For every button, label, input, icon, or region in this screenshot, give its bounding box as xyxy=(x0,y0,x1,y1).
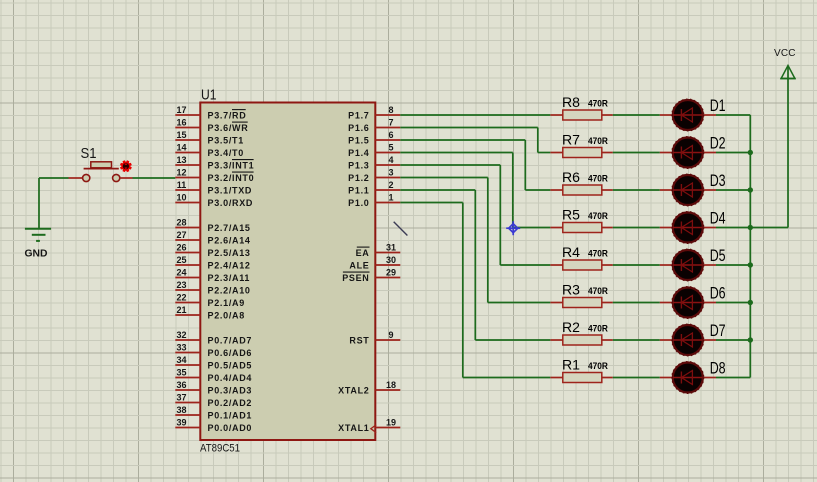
resistor R7 470R xyxy=(550,132,613,158)
pin 1 P1.0 stub xyxy=(375,202,400,204)
pin 37 P0.2/AD2 stub xyxy=(175,402,200,404)
wire D8 to cathode rail xyxy=(716,377,750,379)
svg-text:29: 29 xyxy=(386,267,396,277)
svg-text:2: 2 xyxy=(388,180,393,190)
svg-text:P1.1: P1.1 xyxy=(348,185,369,195)
svg-text:P2.6/A14: P2.6/A14 xyxy=(208,235,251,245)
pin 31 EA stub xyxy=(375,252,400,254)
svg-text:P0.1/AD1: P0.1/AD1 xyxy=(208,410,253,420)
svg-text:35: 35 xyxy=(176,367,186,377)
junction dot rail y=265.0 xyxy=(748,262,753,267)
pin 39 P0.0/AD0 stub xyxy=(175,427,200,429)
svg-text:21: 21 xyxy=(176,305,186,315)
svg-text:17: 17 xyxy=(176,105,186,115)
pin 14 P3.4/T0 stub xyxy=(175,152,200,154)
pin 11 P3.1/TXD stub xyxy=(175,189,200,191)
wire P1.7 to R8 xyxy=(400,114,550,116)
pin 13 P3.3/INT1 stub xyxy=(175,164,200,166)
svg-text:D1: D1 xyxy=(710,96,726,115)
svg-text:31: 31 xyxy=(386,242,396,252)
wire R2 to D7 xyxy=(613,339,660,341)
wire D1 to cathode rail xyxy=(716,114,750,116)
S1 left terminal xyxy=(83,174,90,181)
svg-text:P3.1/TXD: P3.1/TXD xyxy=(208,185,253,195)
svg-text:13: 13 xyxy=(176,155,186,165)
svg-text:AT89C51: AT89C51 xyxy=(200,443,240,455)
svg-text:25: 25 xyxy=(176,255,186,265)
svg-text:36: 36 xyxy=(176,380,186,390)
pin 15 P3.5/T1 stub xyxy=(175,139,200,141)
svg-text:6: 6 xyxy=(388,130,393,140)
svg-text:P3.4/T0: P3.4/T0 xyxy=(208,148,244,158)
svg-text:P1.5: P1.5 xyxy=(348,135,369,145)
wire R7 to D2 xyxy=(613,152,660,154)
svg-text:38: 38 xyxy=(176,405,186,415)
junction dot rail y=190.0 xyxy=(748,187,753,192)
svg-text:D7: D7 xyxy=(710,321,726,340)
svg-text:P0.4/AD4: P0.4/AD4 xyxy=(208,373,253,383)
svg-text:39: 39 xyxy=(176,417,186,427)
pin 9 RST stub xyxy=(375,339,400,341)
svg-text:P2.3/A11: P2.3/A11 xyxy=(208,273,251,283)
svg-text:470R: 470R xyxy=(588,248,608,258)
svg-text:R2: R2 xyxy=(562,319,580,335)
svg-text:4: 4 xyxy=(388,155,393,165)
svg-text:P1.6: P1.6 xyxy=(348,123,369,133)
power symbol VCC xyxy=(781,66,795,79)
svg-text:EA: EA xyxy=(356,248,370,258)
wire P1.2 to R3 xyxy=(400,177,488,179)
svg-text:P0.5/AD5: P0.5/AD5 xyxy=(208,360,253,370)
LED D6 xyxy=(660,284,726,319)
pin 7 P1.6 stub xyxy=(375,127,400,129)
svg-text:16: 16 xyxy=(176,117,186,127)
wire ground riser xyxy=(38,178,40,229)
svg-text:18: 18 xyxy=(386,380,396,390)
wire P1.6 to R7 xyxy=(400,127,538,129)
svg-text:470R: 470R xyxy=(588,136,608,146)
svg-text:P0.6/AD6: P0.6/AD6 xyxy=(208,348,253,358)
svg-text:D6: D6 xyxy=(710,284,726,303)
svg-text:P1.2: P1.2 xyxy=(348,173,369,183)
svg-text:10: 10 xyxy=(176,192,186,202)
svg-text:P3.3/INT1: P3.3/INT1 xyxy=(208,160,255,170)
wire R8 to D1 xyxy=(613,114,660,116)
blue origin cursor xyxy=(506,221,520,235)
wire D4 to cathode rail xyxy=(716,227,750,229)
wire rail to VCC riser xyxy=(750,227,788,229)
svg-text:P0.7/AD7: P0.7/AD7 xyxy=(208,335,253,345)
pin 28 P2.7/A15 stub xyxy=(175,227,200,229)
svg-text:P2.7/A15: P2.7/A15 xyxy=(208,223,251,233)
svg-text:D2: D2 xyxy=(710,134,726,153)
svg-text:P3.0/RXD: P3.0/RXD xyxy=(208,198,254,208)
stray diagonal mark xyxy=(394,222,408,236)
wire P1.3 to R4 xyxy=(400,164,500,166)
resistor R5 470R xyxy=(550,207,613,233)
wire S1 left to ground riser xyxy=(39,177,69,179)
pin 35 P0.4/AD4 stub xyxy=(175,377,200,379)
LED D4 xyxy=(660,209,726,244)
S1 right pin stub xyxy=(120,177,133,179)
svg-text:470R: 470R xyxy=(588,323,608,333)
pin 34 P0.5/AD5 stub xyxy=(175,364,200,366)
pin 29 PSEN stub xyxy=(375,277,400,279)
wire P1.4 to R5 xyxy=(400,152,513,154)
wire D2 to cathode rail xyxy=(716,152,750,154)
wire R1 to D8 xyxy=(613,377,660,379)
S1 actuator bar xyxy=(84,168,119,170)
resistor R8 470R xyxy=(550,94,613,120)
svg-text:P3.5/T1: P3.5/T1 xyxy=(208,135,244,145)
svg-text:R3: R3 xyxy=(562,282,580,298)
svg-text:R8: R8 xyxy=(562,94,580,110)
LED D5 xyxy=(660,246,726,281)
svg-text:27: 27 xyxy=(176,230,186,240)
S1 left pin stub xyxy=(69,177,83,179)
junction dot rail y=152.5 xyxy=(748,150,753,155)
svg-text:S1: S1 xyxy=(81,145,97,162)
svg-text:VCC: VCC xyxy=(774,48,796,59)
svg-text:26: 26 xyxy=(176,242,186,252)
ground symbol xyxy=(25,228,51,230)
wire P1.0 to R1 xyxy=(400,202,463,204)
LED D7 xyxy=(660,321,726,356)
wire R3 to D6 xyxy=(613,302,660,304)
svg-text:19: 19 xyxy=(386,417,396,427)
svg-text:ALE: ALE xyxy=(349,260,369,270)
wire S1 right to pin 12 xyxy=(133,177,176,179)
pin 4 P1.3 stub xyxy=(375,164,400,166)
pin 17 P3.7/RD stub xyxy=(175,114,200,116)
wire R5 to D4 xyxy=(613,227,660,229)
svg-text:23: 23 xyxy=(176,280,186,290)
svg-text:P0.2/AD2: P0.2/AD2 xyxy=(208,398,253,408)
junction dot rail y=302.5 xyxy=(748,300,753,305)
pin 33 P0.6/AD6 stub xyxy=(175,352,200,354)
svg-text:R5: R5 xyxy=(562,207,580,223)
svg-text:GND: GND xyxy=(25,248,48,260)
pin 6 P1.5 stub xyxy=(375,139,400,141)
pin 12 P3.2/INT0 stub xyxy=(175,177,200,179)
svg-text:32: 32 xyxy=(176,330,186,340)
svg-text:P2.0/A8: P2.0/A8 xyxy=(208,310,245,320)
wire P1.5 to R6 xyxy=(400,139,525,141)
wire D3 to cathode rail xyxy=(716,189,750,191)
svg-text:RST: RST xyxy=(349,335,369,345)
svg-text:15: 15 xyxy=(176,130,186,140)
svg-text:R6: R6 xyxy=(562,169,580,185)
svg-text:U1: U1 xyxy=(201,87,217,104)
pin 38 P0.1/AD1 stub xyxy=(175,414,200,416)
svg-text:R7: R7 xyxy=(562,132,580,148)
svg-text:33: 33 xyxy=(176,342,186,352)
svg-text:14: 14 xyxy=(176,142,186,152)
svg-text:470R: 470R xyxy=(588,173,608,183)
svg-text:D3: D3 xyxy=(710,171,726,190)
svg-text:P0.3/AD3: P0.3/AD3 xyxy=(208,385,253,395)
wire VCC riser xyxy=(787,66,789,228)
svg-text:R1: R1 xyxy=(562,357,580,373)
svg-text:PSEN: PSEN xyxy=(342,273,369,283)
wire LED anode rail xyxy=(749,115,751,378)
pin 27 P2.6/A14 stub xyxy=(175,239,200,241)
svg-text:D8: D8 xyxy=(710,359,726,378)
S1 button xyxy=(91,162,112,168)
svg-text:D5: D5 xyxy=(710,246,726,265)
resistor R2 470R xyxy=(550,319,613,345)
svg-text:XTAL2: XTAL2 xyxy=(338,385,369,395)
pin 32 P0.7/AD7 stub xyxy=(175,339,200,341)
pin 36 P0.3/AD3 stub xyxy=(175,389,200,391)
svg-text:5: 5 xyxy=(388,142,393,152)
svg-text:D4: D4 xyxy=(710,209,726,228)
wire D5 to cathode rail xyxy=(716,264,750,266)
svg-text:P3.6/WR: P3.6/WR xyxy=(208,123,249,133)
pin 19 XTAL1 stub xyxy=(375,427,400,429)
svg-text:P0.0/AD0: P0.0/AD0 xyxy=(208,423,253,433)
svg-text:470R: 470R xyxy=(588,286,608,296)
pin 8 P1.7 stub xyxy=(375,114,400,116)
svg-text:37: 37 xyxy=(176,392,186,402)
svg-text:24: 24 xyxy=(176,267,186,277)
svg-text:8: 8 xyxy=(388,105,393,115)
svg-text:12: 12 xyxy=(176,167,186,177)
svg-text:P2.5/A13: P2.5/A13 xyxy=(208,248,251,258)
resistor R4 470R xyxy=(550,244,613,270)
svg-text:P2.1/A9: P2.1/A9 xyxy=(208,298,245,308)
LED D2 xyxy=(660,134,726,169)
pin 26 P2.5/A13 stub xyxy=(175,252,200,254)
LED D3 xyxy=(660,171,726,206)
svg-text:28: 28 xyxy=(176,217,186,227)
svg-text:34: 34 xyxy=(176,355,186,365)
wire R6 to D3 xyxy=(613,189,660,191)
pin 16 P3.6/WR stub xyxy=(175,127,200,129)
svg-text:470R: 470R xyxy=(588,361,608,371)
wire P1.1 to R2 xyxy=(400,189,475,191)
pin 18 XTAL2 stub xyxy=(375,389,400,391)
pin 23 P2.2/A10 stub xyxy=(175,289,200,291)
svg-text:XTAL1: XTAL1 xyxy=(338,423,369,433)
junction dot rail y=340.0 xyxy=(748,337,753,342)
svg-text:P2.2/A10: P2.2/A10 xyxy=(208,285,251,295)
pin 3 P1.2 stub xyxy=(375,177,400,179)
wire R4 to D5 xyxy=(613,264,660,266)
pin 2 P1.1 stub xyxy=(375,189,400,191)
svg-text:P2.4/A12: P2.4/A12 xyxy=(208,260,251,270)
svg-text:P1.4: P1.4 xyxy=(348,148,369,158)
pin 10 P3.0/RXD stub xyxy=(175,202,200,204)
pin 24 P2.3/A11 stub xyxy=(175,277,200,279)
svg-text:3: 3 xyxy=(388,167,393,177)
chip U1 AT89C51 microcontroller body xyxy=(200,103,375,441)
svg-text:1: 1 xyxy=(388,192,393,202)
svg-text:P3.7/RD: P3.7/RD xyxy=(208,110,247,120)
wire D6 to cathode rail xyxy=(716,302,750,304)
svg-text:30: 30 xyxy=(386,255,396,265)
resistor R6 470R xyxy=(550,169,613,195)
svg-text:470R: 470R xyxy=(588,98,608,108)
svg-text:R4: R4 xyxy=(562,244,580,260)
pin 22 P2.1/A9 stub xyxy=(175,302,200,304)
resistor R3 470R xyxy=(550,282,613,308)
svg-text:22: 22 xyxy=(176,292,186,302)
svg-text:11: 11 xyxy=(177,180,187,190)
LED D8 xyxy=(660,359,726,394)
XTAL1 clock input arrow xyxy=(371,425,376,433)
svg-text:P3.2/INT0: P3.2/INT0 xyxy=(208,173,255,183)
S1 red actuation star xyxy=(120,161,131,172)
LED D1 xyxy=(660,96,726,131)
wire D7 to cathode rail xyxy=(716,339,750,341)
pin 25 P2.4/A12 stub xyxy=(175,264,200,266)
svg-text:P1.7: P1.7 xyxy=(348,110,369,120)
pin 5 P1.4 stub xyxy=(375,152,400,154)
resistor R1 470R xyxy=(550,357,613,383)
svg-text:470R: 470R xyxy=(588,211,608,221)
junction dot rail y=227.5 xyxy=(748,225,753,230)
svg-text:P1.3: P1.3 xyxy=(348,160,369,170)
svg-text:7: 7 xyxy=(388,117,393,127)
svg-text:9: 9 xyxy=(388,330,393,340)
S1 right terminal xyxy=(113,174,120,181)
pin 30 ALE stub xyxy=(375,264,400,266)
svg-text:P1.0: P1.0 xyxy=(348,198,369,208)
pin 21 P2.0/A8 stub xyxy=(175,314,200,316)
